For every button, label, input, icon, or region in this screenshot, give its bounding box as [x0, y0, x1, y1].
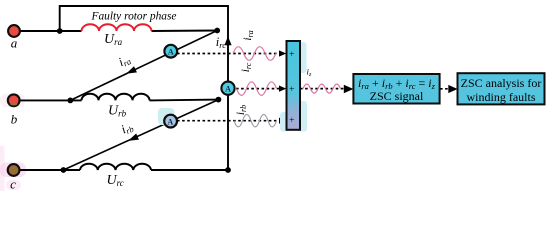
arrowhead row 2 [279, 86, 286, 92]
bus current arrow i_rc [224, 36, 231, 45]
pink highlight behind terminal c [0, 163, 26, 178]
terminal a [8, 25, 20, 37]
svg-text:ira: ira [242, 30, 255, 40]
svg-text:ZSC signal: ZSC signal [370, 89, 424, 103]
svg-text:Ura: Ura [104, 32, 123, 47]
highlight glow behind ammeter A2 [158, 108, 175, 125]
output dotted line i_z [300, 88, 348, 90]
svg-text:ira: ira [116, 52, 132, 70]
arrowhead i_ra [125, 66, 137, 77]
inductor U_rc [80, 164, 151, 170]
arrowhead row 1 [279, 50, 286, 56]
pink highlight behind terminal b [0, 94, 25, 108]
svg-text:Urc: Urc [107, 173, 124, 188]
svg-text:A: A [225, 84, 231, 93]
arrowhead i_rb [127, 133, 139, 144]
svg-text:irb: irb [235, 105, 248, 115]
svg-text:+: + [289, 85, 294, 95]
signal row 2: dotted line [236, 88, 281, 90]
inductor U_rb [82, 94, 150, 101]
wire: diagonal b to c with current arrow [63, 100, 218, 170]
wire phase a [21, 30, 82, 32]
node: star point at bus bottom [225, 167, 231, 173]
sine wave i_rc [237, 82, 277, 96]
svg-text:irb: irb [119, 119, 135, 137]
svg-text:Urb: Urb [108, 104, 127, 119]
ammeter A2 [164, 115, 177, 128]
box: ZSC signal [353, 74, 439, 104]
brown sliver at bottom of terminal b [10, 104, 18, 106]
svg-text:a: a [11, 36, 18, 51]
summation block [287, 41, 301, 130]
ammeter A3 on bus [221, 82, 234, 95]
sine wave i_z [303, 84, 341, 93]
svg-text:A: A [167, 117, 173, 126]
dotted arrow between boxes [440, 88, 449, 90]
signal row 1: dotted line [177, 53, 281, 55]
junction node phase a [57, 28, 63, 34]
terminal b [8, 94, 20, 106]
svg-text:iz: iz [307, 67, 312, 78]
svg-text:+: + [289, 50, 294, 60]
svg-text:c: c [10, 176, 16, 191]
wire phase c [21, 169, 81, 171]
arrowhead into analysis box [448, 85, 457, 93]
node: winding a end [214, 28, 220, 34]
junction node phase c [61, 167, 67, 173]
sine wave i_ra [233, 47, 276, 61]
wire: diagonal a to b with current arrow [70, 31, 217, 101]
sine wave i_rb (grey) [234, 114, 277, 127]
inductor U_ra (red coil) [82, 24, 152, 31]
svg-text:ZSC analysis for: ZSC analysis for [461, 76, 542, 90]
svg-text:irc: irc [216, 35, 226, 50]
arrowhead row 3 [279, 118, 286, 124]
svg-text:+: + [289, 116, 294, 126]
box: ZSC analysis for winding faults [458, 73, 545, 104]
arrowhead into ZSC signal box [344, 85, 354, 94]
svg-text:winding faults: winding faults [467, 90, 536, 104]
signal row 3: dotted line [177, 120, 281, 122]
node: winding b end [216, 97, 222, 103]
junction node phase b [67, 98, 73, 104]
svg-text:Faulty rotor phase: Faulty rotor phase [90, 10, 176, 22]
faulty-phase bypass wire and neutral bus [60, 6, 228, 170]
ammeter A1 [164, 45, 177, 58]
terminal c [8, 164, 20, 176]
svg-text:b: b [11, 111, 18, 126]
highlight glow behind summation block [298, 42, 307, 73]
wire phase b [21, 99, 82, 101]
svg-text:irc: irc [240, 62, 253, 72]
svg-text:A: A [168, 48, 174, 57]
